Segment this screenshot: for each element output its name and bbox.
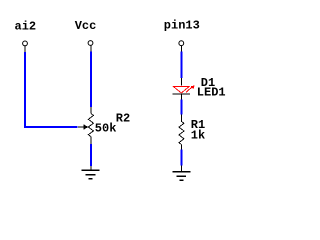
wire R2 bottom to ground xyxy=(90,144,92,166)
wire Vcc to R2 top xyxy=(90,52,92,108)
svg-text:50k: 50k xyxy=(95,122,117,136)
potentiometer R2 xyxy=(78,107,94,144)
ground symbol under R1 xyxy=(172,166,190,181)
svg-text:ai2: ai2 xyxy=(15,20,37,34)
terminal pin Vcc xyxy=(88,41,93,52)
wire pin13 to D1 anode xyxy=(181,52,183,78)
wiper arrow of R2 xyxy=(78,126,84,128)
terminal pin ai2 xyxy=(23,41,28,52)
wire D1 cathode to R1 top xyxy=(181,99,183,114)
svg-text:Vcc: Vcc xyxy=(75,19,97,33)
wire R1 bottom to ground xyxy=(181,149,183,165)
svg-text:LED1: LED1 xyxy=(197,86,226,100)
LED D1 xyxy=(172,78,194,99)
svg-text:1k: 1k xyxy=(191,128,205,142)
svg-text:R2: R2 xyxy=(116,111,130,125)
LED light arrow xyxy=(186,87,192,92)
terminal pin pin13 xyxy=(179,41,184,52)
resistor R1 xyxy=(179,115,184,150)
wire ai2 to R2 wiper xyxy=(25,52,78,127)
svg-text:pin13: pin13 xyxy=(164,19,200,33)
ground symbol under R2 xyxy=(81,166,99,179)
